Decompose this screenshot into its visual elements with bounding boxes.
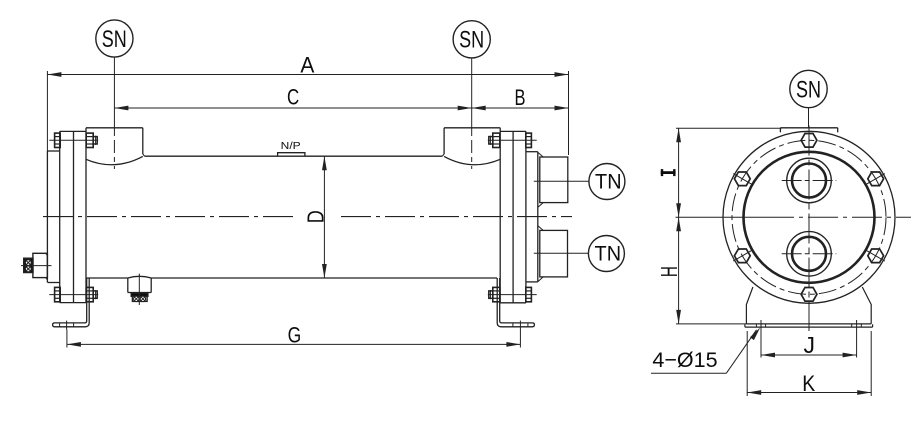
right shell nozzle cap (SN2) [442, 128, 500, 165]
shell axis centerline [43, 216, 572, 218]
end view flange outer circle [723, 131, 895, 303]
svg-text:C: C [287, 85, 299, 110]
svg-text:N/P: N/P [281, 140, 301, 152]
left end cover [47, 151, 59, 283]
lower TN nozzle [538, 226, 568, 282]
left foot bracket [53, 278, 90, 330]
SN balloon 2 [453, 21, 490, 169]
dimension K [747, 331, 871, 396]
end view shell bore circle [744, 152, 875, 283]
right flange plates [500, 128, 526, 303]
right flange bolt top [488, 133, 537, 147]
right end cover [526, 152, 538, 282]
upper TN nozzle [538, 152, 568, 207]
N/P boss [278, 140, 305, 156]
svg-text:SN: SN [796, 76, 821, 103]
svg-text:A: A [300, 52, 314, 77]
SN balloon 1 [96, 20, 133, 169]
left flange bolt bottom [49, 287, 98, 301]
bottom anode fitting [128, 274, 151, 305]
svg-text:G: G [288, 323, 302, 348]
svg-text:4−Ø15: 4−Ø15 [652, 348, 717, 372]
dimension D [302, 156, 328, 278]
left flange plates [60, 128, 86, 303]
SN balloon 3 [790, 70, 827, 128]
svg-text:K: K [802, 371, 815, 396]
svg-text:H: H [656, 266, 682, 277]
shell [86, 156, 497, 278]
dimension C [114, 85, 471, 111]
dimension B [472, 85, 569, 110]
dimension A [47, 52, 568, 155]
TN balloon lower [534, 236, 625, 272]
end view mounting bracket [745, 287, 873, 327]
dimension I [661, 128, 782, 217]
left shell nozzle cap (SN1) [86, 128, 145, 165]
svg-text:D: D [302, 210, 328, 223]
left flange bolt top [49, 133, 98, 147]
dimension G [67, 323, 521, 348]
right flange bolt bottom [488, 287, 537, 301]
dimension J [761, 320, 857, 358]
dimension H [656, 217, 746, 324]
callout 4-Ø15 [651, 327, 760, 373]
right foot bracket [497, 278, 534, 330]
left drain fitting [21, 253, 52, 279]
svg-text:B: B [515, 85, 526, 110]
svg-text:J: J [804, 332, 816, 358]
TN balloon upper [534, 164, 625, 200]
lower port [782, 232, 837, 277]
flange bolts (end view) [733, 134, 885, 302]
end view bolt circle [732, 140, 886, 294]
top pad (SN nozzle end-on) [780, 128, 837, 133]
svg-text:SN: SN [102, 26, 127, 53]
svg-text:SN: SN [459, 27, 484, 54]
upper port [782, 158, 837, 203]
svg-text:TN: TN [595, 242, 622, 265]
end view centerlines [676, 126, 912, 332]
svg-text:TN: TN [595, 170, 622, 193]
